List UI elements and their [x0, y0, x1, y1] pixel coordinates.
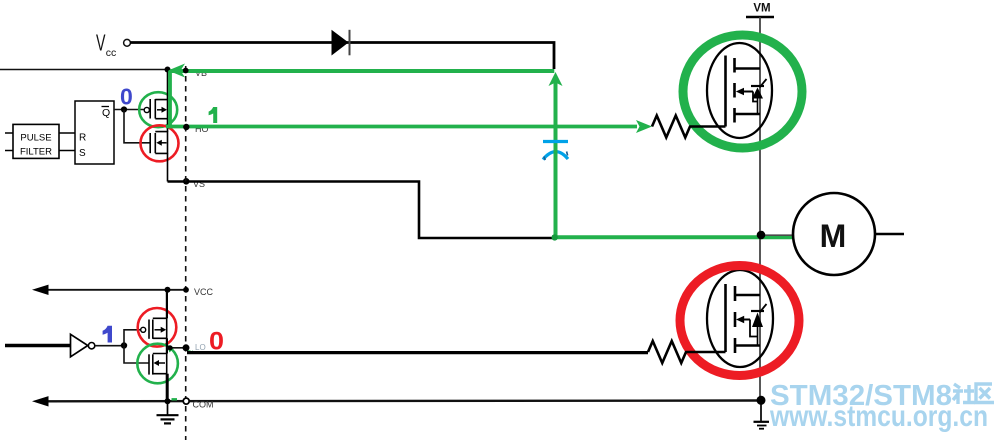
annotation HO high (green): [166, 125, 637, 129]
wire COM rail: [47, 399, 761, 402]
ground left: [157, 401, 179, 423]
watermark CJK 社区: [953, 384, 994, 404]
node LO pin: [183, 344, 190, 351]
small PMOS M1 (high drive): [144, 99, 167, 119]
small PMOS M3: [141, 318, 167, 339]
small NMOS M4: [149, 354, 167, 375]
wire switch node to motor: [761, 234, 794, 236]
annotation green path: VB rail: [170, 69, 554, 73]
annotation green arrowhead at LO junction: [166, 345, 174, 353]
resistor R gate low-side: [648, 341, 726, 363]
label logic 1 (blue): [103, 326, 112, 343]
pin COM: [183, 398, 189, 404]
wire PMOS drain to VB: [167, 70, 169, 100]
wire driver output to HO: [167, 119, 169, 132]
svg-text:R: R: [79, 133, 86, 144]
terminal Vcc: [124, 39, 131, 46]
svg-text:VCC: VCC: [194, 287, 214, 297]
motor M: [793, 193, 875, 275]
svg-text:0: 0: [209, 328, 224, 356]
label logic 1 (green): [209, 107, 218, 123]
arrowhead COM left: [32, 396, 49, 406]
resistor R gate high-side: [652, 116, 726, 138]
wire Vcc rail to bootstrap: [130, 43, 554, 70]
node inverter out: [121, 342, 127, 348]
svg-text:cc: cc: [106, 47, 117, 59]
node HO pin: [183, 124, 189, 130]
annotation green circle (lo driver on): [137, 344, 178, 384]
svg-text:LO: LO: [195, 343, 206, 352]
arrowhead VCC left: [32, 285, 49, 295]
wire VM vertical bus: [759, 17, 761, 400]
wire NMOS source to COM: [166, 374, 169, 402]
inverter U2: [5, 334, 95, 357]
annotation red circle (lo driver off): [141, 125, 179, 161]
node VS pin: [183, 178, 190, 185]
annotation green tick near COM junction: [172, 398, 178, 400]
annotation arrowhead left at VB node: [168, 64, 185, 78]
svg-text:www.stmcu.org.cn: www.stmcu.org.cn: [769, 400, 988, 433]
wire NMOS source to VS: [167, 153, 169, 181]
SR latch U1: [75, 101, 114, 164]
annotation green circle (hi-side driver on): [139, 92, 177, 127]
node gate drive: [121, 106, 127, 112]
svg-text:VM: VM: [753, 3, 770, 15]
wire filter to latch R: [59, 132, 75, 134]
annotation arrowhead up: [549, 72, 563, 86]
ground right: [754, 400, 770, 428]
node VB junction: [165, 67, 171, 73]
annotation green bootstrap riser: [554, 76, 558, 239]
wire LO tap: [167, 347, 186, 349]
wire filter to latch S: [59, 150, 75, 152]
annotation arrowhead right at gate resistor: [636, 120, 652, 133]
svg-text:PULSE: PULSE: [20, 133, 51, 144]
power rail VM: [746, 16, 774, 19]
MOSFET Q1 high-side: [707, 43, 772, 138]
node VS to bootstrap junction: [552, 234, 558, 240]
node VB pin: [183, 68, 189, 74]
annotation red circle (hi driver off): [138, 308, 177, 347]
diode D1 bootstrap: [332, 30, 350, 56]
wire to PMOS gate (low section): [124, 330, 141, 346]
node LO junction: [167, 345, 172, 350]
svg-text:S: S: [79, 148, 86, 159]
annotation green dash remnant: [188, 350, 194, 352]
wire gate branch down to NMOS: [124, 110, 150, 143]
node COM right: [757, 396, 766, 405]
capacitor plate end ticks: [544, 152, 568, 161]
node VCC junction: [165, 287, 171, 293]
annotation green ring (high-side ON): [683, 35, 802, 148]
pulse filter block: [13, 124, 59, 158]
svg-text:M: M: [820, 218, 847, 254]
body diode Q1: [751, 85, 764, 87]
svg-text:0: 0: [120, 84, 133, 110]
body diode Q2: [751, 310, 764, 312]
pin VCC: [183, 287, 189, 293]
capacitor C bootstrap (blue) top plate: [543, 140, 568, 143]
IC boundary (dashed): [185, 66, 187, 440]
wire VB input from left: [0, 69, 167, 71]
svg-text:FILTER: FILTER: [20, 147, 52, 158]
wire LO run: [187, 351, 648, 354]
wire motor right: [875, 233, 904, 236]
small NMOS M2 (low drive): [150, 132, 167, 154]
node COM junction: [165, 398, 171, 404]
annotation red ring (low-side OFF): [680, 266, 799, 376]
svg-text:COM: COM: [193, 400, 214, 410]
wire VS run: [168, 182, 555, 239]
capacitor C bootstrap curved plate: [543, 152, 568, 160]
wire VCC rail: [47, 289, 186, 291]
svg-text:Q: Q: [102, 107, 110, 119]
wire filter input stubs: [5, 132, 13, 134]
wire to NMOS gate (low section): [124, 346, 149, 364]
wire VCC to PMOS source: [166, 290, 168, 319]
wire driver mid: [166, 338, 168, 353]
svg-text:V: V: [96, 30, 106, 56]
wire inverter out: [95, 345, 124, 347]
annotation green output run to motor: [554, 235, 793, 239]
MOSFET Q2 low-side: [707, 270, 773, 367]
annotation green riser from HO to VB: [168, 71, 172, 128]
node switch output: [757, 231, 766, 240]
wire Qbar output: [114, 109, 144, 111]
